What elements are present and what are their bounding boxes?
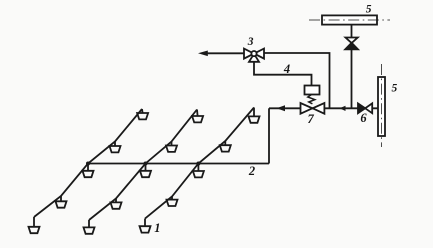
pipe 5 (top header): outline — [322, 15, 377, 24]
sprinkler A1 (line end) — [29, 217, 40, 233]
valve 6 (shut-off, half filled) — [358, 103, 372, 113]
lateral pipe C (rightmost) — [145, 108, 254, 219]
sprinkler C5 (top end) — [249, 108, 260, 123]
sprinkler C2 — [167, 197, 178, 207]
wire: drop from top pipe 5 to relief valve — [351, 25, 353, 38]
valve 7 (control valve) — [301, 103, 325, 114]
sprinkler B1 (line end) — [84, 220, 95, 234]
sprinkler C1 (line end) — [140, 219, 151, 233]
pipe 5 (top header): body fill — [322, 15, 377, 24]
arrow: outlet flow arrow (left) — [198, 51, 208, 57]
svg-text:5: 5 — [366, 3, 372, 15]
wire: manifold 2 — [88, 163, 269, 165]
actuator diaphragm box above valve 7 — [305, 86, 320, 95]
sprinkler A2 — [56, 196, 67, 208]
pipe 5 (right standpipe): dash-dot centerline — [381, 64, 383, 147]
svg-text:4: 4 — [283, 62, 290, 76]
pipe 5 (top header): dash-dot centerline — [309, 19, 390, 21]
svg-text:7: 7 — [307, 112, 314, 126]
lateral pipe B (middle) — [89, 110, 197, 221]
svg-text:2: 2 — [248, 164, 255, 178]
sprinkler C4 — [220, 141, 231, 152]
arrow: flow arrow near riser corner — [277, 105, 286, 111]
junction node: manifold x lateral C — [196, 162, 200, 166]
wire: outlet line left of valve 3 — [207, 52, 245, 54]
sprinkler B4 — [166, 142, 177, 152]
svg-text:3: 3 — [247, 36, 254, 48]
svg-text:1: 1 — [154, 221, 160, 235]
sprinkler A5 (top end) — [137, 109, 148, 119]
sprinkler C3 (at manifold junction) — [193, 164, 204, 178]
pipe 5 (right standpipe): outline — [378, 77, 385, 136]
junction node: manifold x lateral A — [86, 162, 90, 166]
wire: main supply line — [269, 107, 378, 109]
svg-text:6: 6 — [360, 111, 367, 125]
valve 3 (three-way valve) — [244, 49, 264, 62]
lateral pipe A (leftmost) — [34, 109, 142, 217]
sprinkler B3 (at manifold junction) — [140, 164, 151, 178]
sprinkler B5 (top end) — [192, 110, 203, 123]
wire: riser from manifold to main line — [268, 108, 270, 163]
pipe 5 (right standpipe): body fill — [378, 77, 385, 136]
svg-text:5: 5 — [392, 83, 398, 95]
wire: branch from valve 3 to main line — [264, 53, 330, 108]
relief valve below pipe 5 (open over filled triangle) — [346, 38, 358, 44]
sprinkler A4 — [110, 142, 121, 153]
wire: control impulse line 4 — [254, 61, 312, 86]
sprinkler A3 (at manifold junction) — [83, 164, 94, 178]
actuator stem (zigzag) — [308, 95, 315, 104]
sprinkler B2 — [111, 199, 122, 209]
junction node: manifold x lateral B — [144, 162, 148, 166]
wire: relief valve down to main line — [351, 49, 353, 108]
arrow: flow arrow left of junction — [340, 106, 346, 111]
